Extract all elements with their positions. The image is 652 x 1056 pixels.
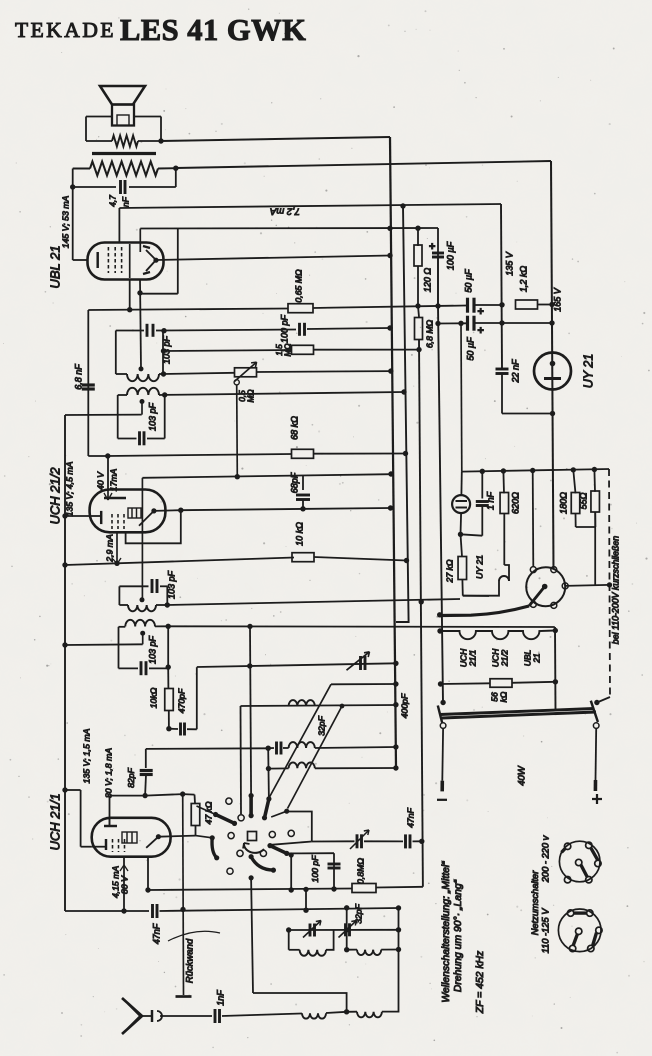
- svg-text:103 pF: 103 pF: [147, 635, 157, 664]
- svg-text:21/1: 21/1: [467, 649, 477, 667]
- svg-text:27 kΩ: 27 kΩ: [444, 559, 454, 583]
- svg-text:22 nF: 22 nF: [510, 359, 520, 384]
- svg-text:+: +: [429, 241, 436, 253]
- svg-text:110 -125 V: 110 -125 V: [540, 908, 550, 954]
- svg-text:0,65 MΩ: 0,65 MΩ: [293, 269, 303, 303]
- svg-text:10 kΩ: 10 kΩ: [294, 522, 304, 546]
- svg-text:Drehung um 90°· „Lang“: Drehung um 90°· „Lang“: [453, 879, 464, 992]
- svg-text:50 µF: 50 µF: [463, 269, 473, 293]
- svg-text:165 V: 165 V: [552, 287, 562, 312]
- svg-text:1 nF: 1 nF: [485, 491, 495, 510]
- svg-text:+: +: [477, 325, 484, 337]
- svg-text:103 pF: 103 pF: [147, 402, 157, 431]
- svg-text:7,2 mA: 7,2 mA: [270, 205, 300, 216]
- svg-text:UY 21: UY 21: [581, 354, 595, 389]
- svg-text:MΩ: MΩ: [247, 389, 256, 402]
- svg-text:135 V; 1,5 mA: 135 V; 1,5 mA: [81, 728, 91, 783]
- svg-text:4,7: 4,7: [107, 195, 117, 207]
- svg-text:80 V; 1,8 mA: 80 V; 1,8 mA: [103, 748, 113, 798]
- svg-text:6,8 MΩ: 6,8 MΩ: [424, 319, 434, 348]
- svg-text:Wellenschalterstellung: „Mitte: Wellenschalterstellung: „Mittel“: [441, 861, 452, 1003]
- svg-text:Netzumschalter: Netzumschalter: [530, 870, 540, 935]
- svg-text:21/2: 21/2: [499, 649, 509, 667]
- svg-text:MΩ: MΩ: [284, 343, 293, 356]
- svg-text:103 pF: 103 pF: [161, 335, 171, 364]
- svg-text:UY 21: UY 21: [474, 555, 484, 579]
- svg-text:47nF: 47nF: [151, 923, 161, 944]
- svg-text:21: 21: [531, 653, 541, 664]
- svg-text:200 - 220 v: 200 - 220 v: [540, 834, 550, 883]
- svg-text:32pF: 32pF: [353, 903, 363, 923]
- svg-text:100 pF: 100 pF: [310, 855, 320, 883]
- svg-text:100 µF: 100 µF: [445, 241, 455, 270]
- svg-text:47nF: 47nF: [405, 807, 415, 827]
- svg-text:135 V; 4,5 mA: 135 V; 4,5 mA: [64, 461, 74, 516]
- svg-text:103 pF: 103 pF: [166, 570, 176, 599]
- svg-text:80 V: 80 V: [119, 875, 129, 894]
- svg-text:TEKADE: TEKADE: [15, 18, 116, 42]
- svg-text:120 Ω: 120 Ω: [422, 268, 432, 293]
- svg-text:82pF: 82pF: [126, 767, 136, 787]
- svg-text:40 V: 40 V: [95, 471, 105, 490]
- svg-text:ZF = 452 kHz: ZF = 452 kHz: [475, 950, 486, 1014]
- svg-text:400pF: 400pF: [399, 693, 409, 718]
- svg-text:UCH 21/1: UCH 21/1: [47, 793, 62, 850]
- svg-text:50 µF: 50 µF: [465, 337, 475, 361]
- svg-text:0,8MΩ: 0,8MΩ: [355, 858, 365, 884]
- svg-text:470pF: 470pF: [176, 688, 186, 713]
- svg-text:2,9 mA: 2,9 mA: [104, 534, 114, 563]
- svg-text:UCH 21/2: UCH 21/2: [47, 467, 62, 525]
- svg-text:68 kΩ: 68 kΩ: [289, 416, 299, 440]
- svg-text:10kΩ: 10kΩ: [148, 687, 158, 708]
- svg-text:Rückwand: Rückwand: [185, 938, 196, 983]
- svg-text:LES 41 GWK: LES 41 GWK: [120, 13, 306, 47]
- svg-text:180Ω: 180Ω: [558, 492, 568, 514]
- svg-text:6,8 nF: 6,8 nF: [73, 364, 83, 390]
- svg-text:1nF: 1nF: [215, 990, 225, 1006]
- svg-text:135 V: 135 V: [504, 251, 514, 276]
- svg-text:UBL 21: UBL 21: [47, 245, 62, 288]
- svg-text:620Ω: 620Ω: [510, 492, 520, 514]
- svg-text:17mA: 17mA: [108, 468, 118, 491]
- svg-text:32pF: 32pF: [316, 715, 326, 735]
- svg-text:+: +: [477, 306, 484, 318]
- svg-text:1,2 kΩ: 1,2 kΩ: [518, 266, 528, 293]
- svg-text:40W: 40W: [517, 765, 528, 786]
- svg-text:145 V; 53 mA: 145 V; 53 mA: [60, 196, 70, 249]
- svg-text:kΩ: kΩ: [498, 691, 508, 702]
- svg-text:nF: nF: [120, 196, 130, 207]
- svg-text:bei 110-200V kurzschließen: bei 110-200V kurzschließen: [610, 536, 620, 645]
- svg-text:55Ω: 55Ω: [578, 492, 588, 509]
- svg-text:100 pF: 100 pF: [279, 314, 289, 343]
